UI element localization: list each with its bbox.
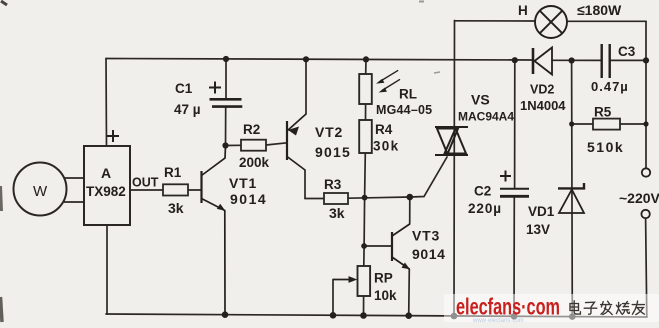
wire VT3 base lead (364, 245, 392, 247)
capacitor C3 (602, 44, 610, 78)
wire R1 input from amp OUT (130, 189, 163, 191)
svg-text:47 µ: 47 µ (174, 102, 201, 117)
svg-text:www·elecfans·com: www·elecfans·com (472, 318, 524, 324)
node R5 right (643, 121, 648, 126)
node ground C2 (511, 313, 518, 320)
node ground VT1 (222, 311, 229, 318)
capacitor C2 (500, 189, 529, 197)
amplifier U1 TX982 box (84, 146, 130, 225)
resistor R5 (593, 119, 620, 130)
scan noise marks (1, 1, 441, 322)
watermark chinese char dian (570, 301, 644, 315)
watermark band (444, 294, 659, 322)
watermark chinese char shao (616, 301, 629, 314)
svg-text:3k: 3k (329, 205, 345, 221)
svg-text:10k: 10k (374, 288, 397, 303)
node top rail VT2 emitter (303, 56, 309, 62)
wire C2 to ground rail (513, 197, 515, 317)
wire RL to R4 (365, 104, 367, 120)
node ground VD1 (569, 313, 576, 320)
RP wiper arrow (333, 279, 351, 281)
wire VT3 emitter down to ground (408, 269, 411, 317)
svg-text:VT3: VT3 (412, 228, 440, 244)
wire bottom ground rail (106, 314, 647, 317)
wire node B down to VT3 base node (363, 198, 366, 246)
light arrows into RL (380, 70, 401, 90)
plus sign above amp (107, 130, 119, 142)
wire R2 to VT2 base (266, 143, 287, 145)
svg-text:200k: 200k (239, 155, 270, 170)
node top rail C2 (512, 57, 518, 63)
svg-text:W: W (33, 183, 48, 200)
transistor Q1 VT1 9014 (200, 171, 202, 203)
transistor Q3 VT3 9014 (391, 232, 393, 261)
node C (R3/VT3 collector/gate) (407, 194, 414, 201)
lamp H (535, 6, 567, 38)
node ground RP wiper (330, 312, 337, 319)
svg-text:OUT: OUT (132, 176, 159, 190)
wire VT3 collector up to node C (409, 197, 411, 224)
AC terminal upper (642, 168, 650, 176)
VT3 emitter arrow (402, 263, 411, 270)
svg-text:~220V: ~220V (619, 190, 659, 206)
svg-text:elecfans·com: elecfans·com (456, 294, 560, 320)
svg-text:R5: R5 (594, 105, 612, 120)
zener VD1 13V (558, 183, 584, 213)
svg-text:R3: R3 (324, 177, 342, 192)
wire lamp right lead (567, 20, 646, 22)
wire top rail left segment (106, 59, 533, 61)
wire amp bottom to ground rail (106, 225, 108, 314)
VT2 emitter arrow (PNP, points toward base) (288, 127, 299, 136)
triac VS MAC94A4 (435, 127, 468, 155)
node R5 left (569, 121, 574, 126)
plus sign C1 (209, 82, 221, 94)
node top rail RL (363, 56, 369, 62)
svg-text:220µ: 220µ (468, 201, 502, 216)
svg-text:R1: R1 (164, 165, 182, 180)
svg-text:MG44–05: MG44–05 (376, 103, 432, 117)
svg-text:≤180W: ≤180W (577, 2, 622, 18)
wire R3 left lead (305, 198, 324, 200)
resistor R4 (359, 120, 372, 153)
wire VD1 branch from rail (571, 61, 574, 317)
watermark chinese char you (632, 301, 644, 315)
svg-text:9015: 9015 (315, 144, 351, 160)
wire VT2 collector down to R3 (304, 170, 306, 199)
svg-text:VD1: VD1 (528, 204, 555, 219)
wire VT2 emitter to top rail (305, 59, 307, 114)
svg-text:A: A (101, 165, 111, 181)
resistor R1 (163, 184, 188, 195)
node top rail C1 (223, 56, 229, 62)
svg-text:30k: 30k (373, 139, 399, 154)
svg-text:0.47µ: 0.47µ (591, 79, 629, 94)
svg-text:C3: C3 (618, 44, 636, 59)
wire triac gate from node C (410, 157, 447, 197)
svg-text:C1: C1 (175, 81, 193, 96)
VT1 emitter arrow (217, 204, 226, 211)
microphone W (14, 163, 85, 216)
wire top rail right segment (C3 to corner) (610, 59, 646, 61)
svg-text:RP: RP (374, 271, 393, 286)
svg-text:TX982: TX982 (86, 184, 126, 199)
AC terminal lower (641, 210, 649, 218)
node VT3 base (361, 243, 367, 249)
svg-text:3k: 3k (168, 200, 184, 216)
node ground VT3 (405, 312, 412, 319)
wire lamp left lead (455, 20, 536, 22)
wire right edge vertical lamp to rail (645, 21, 647, 60)
wire R5 left lead (572, 123, 593, 125)
node top rail right corner (643, 57, 649, 63)
capacitor C1 (210, 99, 243, 106)
wire R5 right lead (620, 123, 646, 125)
diode VD2 1N4004 (533, 48, 552, 75)
svg-text:1N4004: 1N4004 (520, 98, 566, 113)
svg-text:MAC94A4: MAC94A4 (458, 110, 514, 124)
wire RP bottom to ground rail (363, 296, 365, 316)
svg-text:R4: R4 (375, 122, 393, 137)
plus sign C2 (500, 171, 511, 182)
wire triac main vertical (453, 21, 456, 317)
resistor R2 (241, 140, 266, 151)
node ground RP (360, 312, 367, 319)
svg-text:510k: 510k (587, 139, 624, 155)
wire RL branch from top rail (365, 59, 367, 74)
resistor R3 (324, 193, 348, 204)
node B (R3/R4) (362, 195, 368, 201)
watermark chinese char fa (601, 301, 613, 314)
svg-text:VT1: VT1 (229, 175, 257, 191)
svg-text:13V: 13V (526, 222, 550, 237)
transistor Q2 VT2 9015 (286, 121, 288, 160)
node top rail VD1 branch (569, 57, 575, 63)
wire top rail mid segment (VD2 to C3) (552, 59, 601, 61)
wire R4 down to node B (364, 153, 367, 198)
potentiometer RP (358, 266, 371, 296)
svg-text:VS: VS (471, 92, 490, 108)
watermark chinese char zi (584, 302, 597, 314)
wire R1 to VT1 base (188, 189, 202, 191)
wire node to RP top (363, 246, 365, 266)
svg-text:VT2: VT2 (315, 124, 343, 140)
svg-text:H: H (518, 3, 528, 18)
wire C1 to node A (225, 107, 227, 148)
wire C2 branch top (514, 60, 516, 188)
svg-text:9014: 9014 (412, 246, 446, 262)
wire C1 branch from rail (225, 59, 227, 98)
wire lower AC terminal to ground rail (646, 218, 647, 317)
svg-text:VD2: VD2 (530, 83, 554, 97)
node A (C1/R2/VT1 collector) (222, 142, 228, 148)
photoresistor RL (359, 74, 372, 104)
wire right edge down to AC terminal (645, 60, 647, 168)
wire R3 right lead to node C (348, 197, 410, 198)
wire node A to R2 (226, 144, 242, 146)
svg-text:RL: RL (399, 87, 417, 102)
svg-text:9014: 9014 (230, 191, 267, 207)
node ground triac (451, 313, 458, 320)
wire left vertical to amp top (105, 59, 108, 147)
svg-text:R2: R2 (243, 122, 260, 137)
wire RP wiper return to ground (332, 280, 334, 317)
svg-text:C2: C2 (474, 184, 491, 199)
